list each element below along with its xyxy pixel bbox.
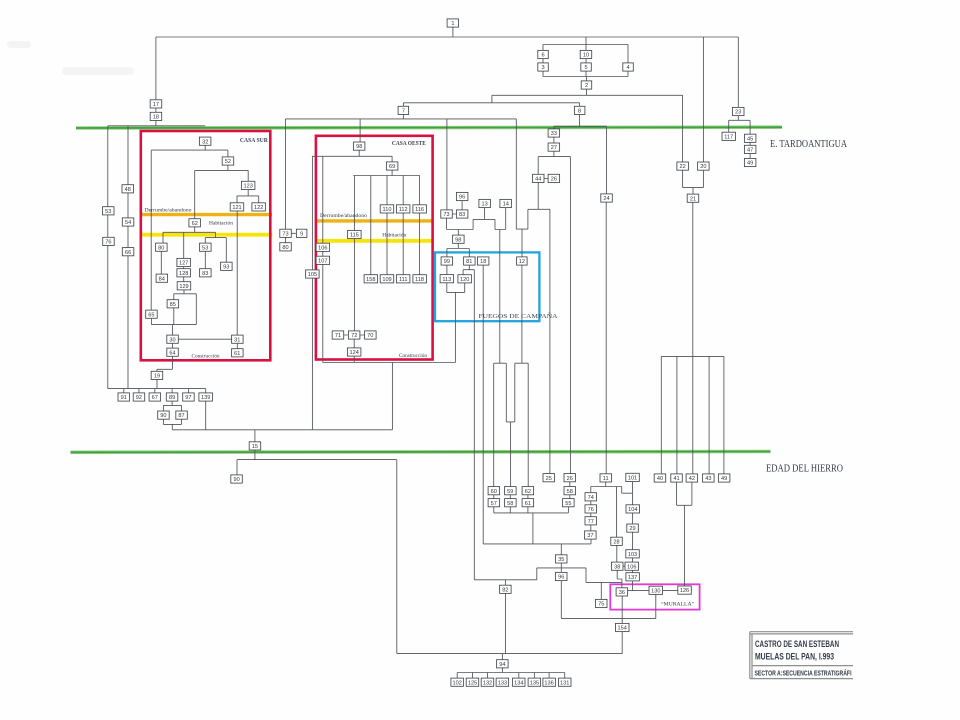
node 47 [744, 145, 756, 153]
svg-text:105: 105 [308, 272, 317, 278]
svg-text:41: 41 [673, 476, 679, 482]
svg-text:Derrumbe/abandono: Derrumbe/abandono [320, 213, 367, 219]
node 58 [505, 499, 516, 507]
node 3 [538, 63, 549, 71]
node 129 [177, 282, 191, 290]
svg-text:109: 109 [382, 277, 391, 283]
svg-text:Construcción: Construcción [192, 354, 220, 360]
wire busA to 73 left [285, 119, 287, 229]
svg-text:47: 47 [747, 148, 753, 154]
svg-text:75: 75 [598, 602, 604, 608]
node 32 [199, 137, 211, 145]
node 1 [447, 19, 459, 27]
wire 45-47-49 [749, 142, 751, 158]
svg-text:104: 104 [628, 507, 637, 513]
wire bus430 [172, 429, 392, 431]
node 10 [580, 50, 592, 58]
svg-text:11: 11 [603, 476, 609, 482]
node 106 [316, 243, 330, 251]
svg-text:36: 36 [619, 590, 625, 596]
svg-text:18: 18 [480, 259, 486, 265]
node 55 [563, 499, 575, 507]
wire 71-72-70 [344, 334, 365, 336]
svg-text:111: 111 [399, 277, 408, 283]
svg-text:139: 139 [201, 395, 210, 401]
node 45 [744, 134, 756, 142]
scan smudge artifacts [7, 41, 134, 75]
svg-text:99: 99 [444, 259, 450, 265]
node 61 [232, 349, 244, 357]
wire constr drop [391, 363, 393, 430]
node 109 [380, 275, 394, 283]
svg-text:103: 103 [628, 552, 637, 558]
svg-text:115: 115 [350, 233, 359, 239]
node 31 [232, 335, 244, 343]
wire to 115 [353, 176, 355, 231]
node 27 [548, 143, 560, 151]
node 83 [456, 210, 468, 218]
wire 15 bus [237, 450, 397, 654]
wire top bus [156, 36, 738, 38]
svg-text:13: 13 [481, 202, 487, 208]
node 75 [596, 599, 608, 607]
svg-text:70: 70 [367, 333, 373, 339]
wire 80-84 [160, 251, 162, 274]
wire bus 7-8 [403, 103, 579, 107]
node 139 [199, 393, 213, 401]
node 7 [398, 106, 409, 114]
svg-text:90: 90 [160, 413, 166, 419]
svg-text:102: 102 [453, 680, 462, 686]
wire 98b bracket [447, 243, 469, 257]
svg-text:26: 26 [567, 476, 573, 482]
node 83 [200, 269, 212, 277]
wire 62-61 [527, 495, 529, 499]
node 110 [380, 205, 394, 213]
svg-text:20: 20 [700, 164, 706, 170]
node 121 [230, 203, 244, 211]
svg-text:33: 33 [551, 131, 557, 137]
node 43 [703, 474, 715, 482]
svg-text:113: 113 [442, 277, 451, 283]
svg-text:49: 49 [747, 161, 753, 167]
svg-text:31: 31 [234, 337, 240, 343]
node 134 [513, 678, 526, 686]
svg-text:5: 5 [584, 65, 587, 71]
svg-text:3: 3 [541, 65, 544, 71]
svg-text:18: 18 [153, 115, 159, 121]
node 80 [280, 243, 292, 251]
wire 7 to busA [402, 115, 404, 119]
wire 26-58-55 [569, 482, 571, 499]
svg-text:61: 61 [234, 351, 240, 357]
svg-text:82: 82 [502, 587, 508, 593]
svg-text:124: 124 [350, 350, 359, 356]
wire bus513 [494, 507, 569, 544]
svg-text:12: 12 [519, 259, 525, 265]
wire 6-10-4 frame [543, 37, 628, 77]
svg-text:87: 87 [178, 413, 184, 419]
svg-text:93: 93 [223, 264, 229, 270]
node 2 [581, 81, 592, 89]
svg-text:SECTOR A:SECUENCIA ESTRATIGRÁF: SECTOR A:SECUENCIA ESTRATIGRÁFI [755, 668, 852, 677]
node 38 [612, 562, 624, 570]
wire muralla to 154 [621, 596, 623, 654]
node 13 [479, 199, 491, 207]
svg-text:127: 127 [179, 261, 188, 267]
node 120 [458, 275, 472, 283]
node 24 [601, 194, 613, 202]
svg-text:62: 62 [525, 489, 531, 495]
svg-text:121: 121 [232, 205, 241, 211]
node 76 [585, 505, 597, 513]
wire 110 col [386, 176, 388, 275]
wire 113/120 loop [447, 283, 465, 363]
wire 115 to 72 [353, 239, 355, 331]
svg-text:96: 96 [558, 575, 564, 581]
node 127 [177, 258, 191, 266]
svg-text:135: 135 [530, 680, 539, 686]
svg-text:125: 125 [468, 680, 477, 686]
svg-text:26: 26 [551, 177, 557, 183]
wire 99-113 [446, 265, 448, 275]
svg-text:112: 112 [399, 207, 408, 213]
wire 36-130-126 [628, 589, 678, 591]
svg-text:10: 10 [583, 53, 589, 59]
node 20 [698, 162, 710, 170]
svg-text:2: 2 [585, 83, 588, 89]
node 66 [122, 248, 134, 256]
svg-text:76: 76 [105, 240, 111, 246]
node 40 [654, 474, 666, 482]
wire 52 bus [195, 165, 249, 219]
node 90 [231, 475, 243, 483]
wire 38 to 36 [617, 570, 622, 588]
node 94 [497, 660, 509, 668]
node 26 [564, 474, 576, 482]
svg-text:90: 90 [233, 477, 239, 483]
svg-text:71: 71 [335, 333, 341, 339]
svg-text:72: 72 [351, 333, 357, 339]
node 116 [413, 205, 427, 213]
wire h618 [561, 618, 656, 620]
node 113 [440, 275, 454, 283]
svg-text:32: 32 [202, 139, 208, 145]
wire 127-128-129 [183, 267, 185, 282]
node 54 [122, 218, 134, 226]
svg-text:136: 136 [544, 680, 553, 686]
svg-text:35: 35 [558, 557, 564, 563]
wire 98 bus oeste [312, 150, 392, 162]
wire 27 to 26 long [569, 157, 571, 474]
svg-text:77: 77 [588, 519, 594, 525]
svg-text:118: 118 [415, 277, 424, 283]
node 122 [252, 203, 266, 211]
wire 73-83 pair [447, 201, 463, 230]
wire to 23 [737, 37, 739, 107]
node 62 [189, 219, 201, 227]
node 41 [671, 474, 683, 482]
wire bus2 left drop [491, 95, 493, 103]
green line E. Tardoantigua [76, 125, 782, 129]
node 103 [626, 550, 640, 558]
node 72 [348, 331, 360, 339]
wire 81 long drop [473, 270, 475, 580]
node 42 [686, 474, 698, 482]
wire to node 12 [521, 229, 523, 257]
wire 8 bus [554, 115, 607, 127]
wire node1 stub [452, 27, 454, 37]
node 136 [543, 678, 556, 686]
svg-text:132: 132 [483, 680, 492, 686]
node 117 [722, 132, 736, 140]
fuegos de campana blue frame [435, 252, 539, 321]
svg-text:128: 128 [179, 271, 188, 277]
node 154 [616, 623, 630, 631]
wire 123 bracket [237, 190, 259, 203]
svg-text:76: 76 [588, 507, 594, 513]
wire to 158 [370, 176, 372, 275]
wire long to 65 [150, 150, 152, 310]
svg-text:21: 21 [690, 196, 696, 202]
wire 101 col [632, 482, 634, 573]
wire to 94 [501, 654, 503, 660]
svg-text:94: 94 [499, 662, 505, 668]
casa oeste red frame [316, 136, 433, 360]
svg-text:1: 1 [451, 21, 454, 27]
wire bottom bus [397, 653, 622, 655]
wire 24 to 11 [605, 202, 607, 474]
node 57 [488, 499, 500, 507]
wire 64 to 19 [157, 356, 173, 371]
node 18 [477, 257, 489, 265]
wire bus to 17/18 [155, 37, 157, 112]
svg-text:129: 129 [179, 284, 188, 290]
wire frame to 2 [586, 77, 588, 96]
svg-text:126: 126 [680, 588, 689, 594]
svg-text:106: 106 [627, 564, 636, 570]
node 62 [522, 487, 534, 495]
node 104 [626, 505, 640, 513]
node 74 [585, 493, 597, 501]
svg-text:4: 4 [626, 65, 629, 71]
svg-text:83: 83 [459, 212, 465, 218]
wire col 106-107 [322, 156, 324, 362]
svg-text:14: 14 [503, 202, 509, 208]
svg-text:92: 92 [136, 395, 142, 401]
svg-text:137: 137 [628, 575, 637, 581]
svg-text:116: 116 [415, 207, 424, 213]
svg-text:6: 6 [541, 53, 544, 59]
node 80 [156, 243, 168, 251]
svg-text:CASA SUR: CASA SUR [240, 137, 268, 144]
svg-text:106: 106 [318, 245, 327, 251]
svg-text:22: 22 [679, 164, 685, 170]
wire 73a-9 [291, 232, 296, 234]
yellow line casa oeste habitacion [316, 239, 433, 243]
node 23 [733, 107, 745, 115]
node 65 [146, 310, 158, 318]
svg-text:110: 110 [383, 207, 392, 213]
svg-text:E. TARDOANTIGUA: E. TARDOANTIGUA [770, 139, 847, 150]
svg-text:43: 43 [705, 476, 711, 482]
svg-text:Habitación: Habitación [209, 221, 233, 227]
wire 105 col [311, 156, 313, 430]
svg-text:58: 58 [567, 489, 573, 495]
svg-text:23: 23 [735, 110, 741, 116]
node 14 [500, 199, 512, 207]
svg-text:CASTRO DE SAN ESTEBAN: CASTRO DE SAN ESTEBAN [755, 638, 839, 649]
wire to 33 [553, 126, 555, 129]
node 106 [625, 562, 639, 570]
node 81 [464, 257, 476, 265]
wire 22/20 merge [683, 170, 704, 194]
wire 139 drop [205, 401, 207, 430]
yellow line casa sur derrumbe [141, 213, 273, 216]
node 49 [744, 158, 756, 166]
wire col 48-54-66 [127, 126, 129, 389]
svg-text:19: 19 [154, 374, 160, 380]
svg-text:62: 62 [192, 221, 198, 227]
wire busA to 98 [359, 119, 361, 142]
wire 18 tee [108, 121, 205, 126]
svg-text:158: 158 [366, 277, 375, 283]
wire 33-27 [553, 137, 555, 143]
node 158 [364, 275, 378, 283]
node 48 [122, 185, 134, 193]
node 35 [556, 555, 568, 563]
svg-text:67: 67 [152, 395, 158, 401]
node 33 [548, 129, 560, 137]
svg-text:59: 59 [507, 489, 513, 495]
svg-text:54: 54 [125, 220, 131, 226]
svg-text:80: 80 [282, 245, 288, 251]
svg-text:61: 61 [525, 501, 531, 507]
svg-text:91: 91 [121, 395, 127, 401]
wire 74 col [590, 501, 592, 531]
svg-text:53: 53 [202, 245, 208, 251]
node 131 [559, 678, 572, 686]
svg-text:81: 81 [466, 259, 472, 265]
svg-text:85: 85 [170, 302, 176, 308]
node 71 [332, 331, 344, 339]
wire to 98b [457, 230, 459, 236]
node 64 [167, 348, 179, 356]
node 4 [623, 63, 634, 71]
node 44 [533, 174, 545, 182]
node 30 [167, 335, 179, 343]
node 67 [149, 393, 161, 401]
wire 31-61 [236, 343, 238, 348]
wire 89 loop [163, 401, 181, 430]
wire 35-96 [560, 563, 562, 572]
wire 28-38 [616, 545, 618, 562]
node 9 [296, 229, 307, 237]
node 90 [158, 411, 170, 419]
svg-text:122: 122 [254, 205, 263, 211]
svg-text:130: 130 [651, 588, 660, 594]
node 124 [347, 348, 361, 356]
wire busA to 73 right [446, 119, 448, 210]
svg-text:15: 15 [252, 444, 258, 450]
node 29 [627, 524, 639, 532]
svg-text:74: 74 [588, 495, 594, 501]
wire long to 25 [549, 209, 551, 473]
wire to 24 [606, 126, 608, 194]
svg-text:60: 60 [491, 489, 497, 495]
node 135 [528, 678, 541, 686]
svg-text:52: 52 [225, 159, 231, 165]
svg-text:53: 53 [105, 209, 111, 215]
wire 137 to muralla [632, 581, 634, 590]
node 73 [280, 229, 292, 237]
wire 30-64 [172, 343, 174, 348]
svg-text:“MURALLA”: “MURALLA” [661, 601, 695, 608]
node 61 [522, 499, 534, 507]
svg-text:73: 73 [282, 231, 288, 237]
node 93 [221, 262, 233, 270]
node 15 [249, 442, 261, 450]
svg-text:7: 7 [402, 109, 405, 115]
node 132 [481, 678, 494, 686]
wire 72-124 [353, 339, 355, 362]
svg-text:83: 83 [202, 271, 208, 277]
wire 129 loop [151, 290, 196, 335]
wire 69 bus [353, 170, 419, 175]
svg-text:89: 89 [169, 395, 175, 401]
wire 44-26 pair [544, 177, 548, 179]
node 52 [222, 157, 234, 165]
yellow line casa oeste derrumbe [316, 219, 433, 222]
svg-text:154: 154 [618, 626, 627, 632]
node 102 [451, 678, 464, 686]
wire bus229 drop mid [499, 230, 501, 364]
wire 41/42 to 126 [677, 482, 692, 586]
node 89 [166, 393, 178, 401]
green line Edad del Hierro [71, 450, 771, 454]
wire 23 bracket [729, 116, 750, 135]
svg-text:134: 134 [514, 680, 523, 686]
svg-text:73: 73 [443, 212, 449, 218]
wire 94 bracket [457, 668, 565, 678]
node 5 [581, 63, 592, 71]
wire 96 drop [560, 581, 562, 619]
svg-text:120: 120 [460, 277, 469, 283]
node 85 [167, 300, 179, 308]
svg-text:101: 101 [628, 476, 637, 482]
svg-text:44: 44 [535, 177, 541, 183]
muralla magenta frame [610, 584, 699, 609]
wire busA [286, 118, 517, 120]
svg-text:98: 98 [356, 144, 362, 150]
node 25 [543, 474, 555, 482]
svg-text:133: 133 [498, 680, 507, 686]
node 137 [626, 573, 640, 581]
node 37 [585, 531, 597, 539]
wire 112 col [402, 176, 404, 275]
svg-text:69: 69 [389, 164, 395, 170]
wire 44 stair [528, 183, 550, 230]
wire col 53-76 [107, 126, 109, 389]
node 11 [600, 474, 612, 482]
svg-text:28: 28 [613, 539, 619, 545]
node 99 [441, 257, 453, 265]
svg-text:27: 27 [551, 145, 557, 151]
wire 18 long drop [482, 265, 484, 544]
wire 73a-80 [285, 237, 287, 242]
svg-text:8: 8 [578, 109, 581, 115]
svg-text:Derrumbe/abandono: Derrumbe/abandono [145, 208, 192, 214]
